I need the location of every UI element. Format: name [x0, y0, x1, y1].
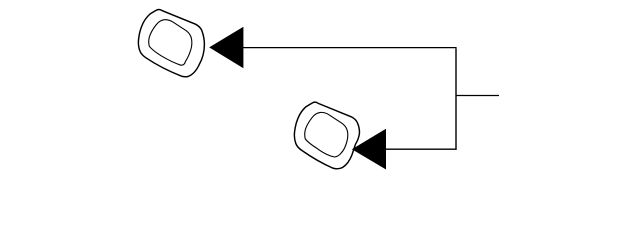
arrow A2 head pointing to gasket G2: [352, 129, 386, 170]
gasket G2 inner contour: [305, 112, 348, 157]
wire: leader line from arrow A2 to bracket: [384, 148, 457, 150]
wire: bracket vertical line: [455, 48, 457, 149]
gasket G1 outer contour: [138, 9, 204, 76]
gasket G1 inner contour: [149, 20, 192, 66]
wire: stub to part callout: [456, 95, 499, 97]
wire: leader line from arrow A1 to bracket: [241, 47, 457, 49]
gasket G2 outer contour: [294, 102, 359, 169]
arrow A1 head pointing to gasket G1: [209, 27, 243, 69]
